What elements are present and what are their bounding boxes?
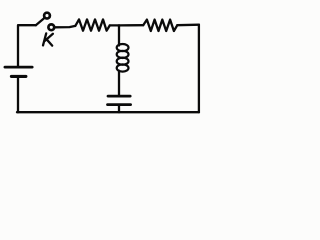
wire: bottom rail (17, 111, 199, 113)
capacitor C (108, 96, 131, 105)
wire: switch to resistor R1 (55, 26, 76, 27)
wire: top-left rail from switch blade pivot to left corner and down to battery + plate (18, 25, 36, 66)
battery cell (5, 67, 32, 76)
wire: inductor to capacitor (118, 71, 120, 96)
node: junction of R1, R2 and L branch (118, 25, 120, 26)
wire: right side vertical (198, 25, 200, 113)
label K (43, 33, 53, 45)
wire: R1 to node (110, 24, 119, 26)
wire: node down to inductor (118, 27, 120, 46)
wire: battery - plate down to bottom rail (17, 77, 19, 112)
inductor L (4-loop coil) (117, 44, 129, 72)
wire: node to resistor R2 (119, 24, 143, 26)
wire: R2 to top-right corner (177, 24, 199, 27)
resistor R1 (75, 19, 110, 30)
wire: capacitor to bottom rail (118, 105, 120, 113)
switch K (open knife switch) (36, 13, 54, 31)
resistor R2 (143, 20, 177, 31)
